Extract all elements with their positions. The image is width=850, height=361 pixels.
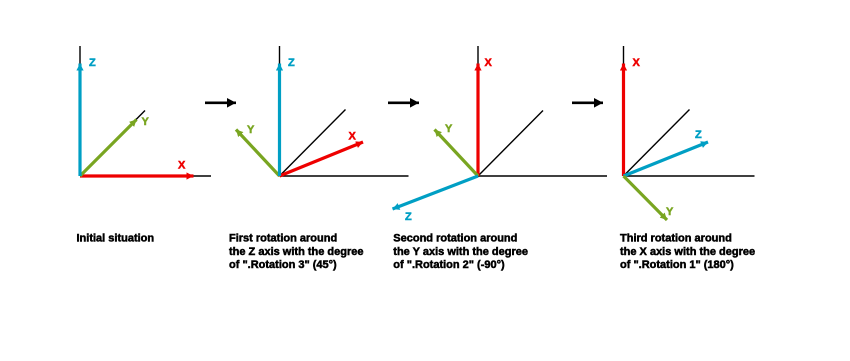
- svg-text:of ".Rotation 1" (180°): of ".Rotation 1" (180°): [620, 259, 734, 271]
- panel3 Y axis (green): [435, 130, 479, 177]
- panel3 Z axis (cyan): [393, 176, 479, 209]
- panel1 reference frame: horizontal black line: [80, 175, 211, 177]
- svg-text:Y: Y: [247, 124, 255, 136]
- panel3 reference frame: vertical black line: [477, 46, 479, 176]
- svg-text:Second rotation around: Second rotation around: [393, 233, 517, 245]
- svg-text:Y: Y: [142, 116, 150, 128]
- panel3 reference frame: diagonal black line: [478, 111, 543, 177]
- panel2 reference frame: diagonal black line: [280, 110, 346, 177]
- panel2 reference frame: vertical black line: [279, 46, 281, 176]
- arrow between panel1 and panel2: [205, 102, 236, 105]
- panel1 Z axis (cyan): [78, 64, 81, 177]
- svg-text:X: X: [349, 131, 357, 143]
- svg-text:the Y axis with the degree: the Y axis with the degree: [393, 246, 528, 258]
- panel2 Z axis (cyan): [278, 64, 281, 177]
- panel1 reference frame: vertical black line: [79, 46, 81, 176]
- svg-text:Z: Z: [89, 57, 96, 69]
- svg-text:X: X: [485, 57, 493, 69]
- svg-text:First rotation around: First rotation around: [229, 233, 337, 245]
- panel4 Z axis (cyan): [624, 142, 709, 176]
- svg-text:the Z axis with the degree: the Z axis with the degree: [229, 246, 363, 258]
- panel2 X axis (red): [280, 142, 364, 176]
- panel2 Y axis (green): [236, 130, 280, 177]
- svg-text:Z: Z: [695, 129, 702, 141]
- panel3 reference frame: horizontal black line: [478, 175, 607, 177]
- svg-text:Third rotation around: Third rotation around: [620, 233, 732, 245]
- panel4 reference frame: horizontal black line: [624, 175, 755, 177]
- arrow between panel3 and panel4: [572, 102, 603, 105]
- panel4 Y axis (green): [624, 176, 668, 220]
- panel3 X axis (red): [476, 64, 479, 177]
- arrow between panel2 and panel3: [388, 102, 419, 105]
- svg-text:of ".Rotation 2" (-90°): of ".Rotation 2" (-90°): [393, 259, 505, 271]
- svg-text:X: X: [178, 160, 186, 172]
- svg-text:the X axis with the degree: the X axis with the degree: [620, 246, 755, 258]
- panel1 reference frame: diagonal black line: [80, 111, 145, 177]
- svg-text:X: X: [633, 57, 641, 69]
- svg-text:Y: Y: [445, 123, 453, 135]
- panel1 Y axis (green): [80, 120, 137, 177]
- panel4 reference frame: vertical black line: [623, 46, 625, 176]
- svg-text:Z: Z: [288, 57, 295, 69]
- panel4 reference frame: diagonal black line: [624, 110, 690, 177]
- panel1 X axis (red): [80, 174, 194, 177]
- svg-text:of ".Rotation 3" (45°): of ".Rotation 3" (45°): [229, 259, 337, 271]
- svg-text:Z: Z: [405, 211, 412, 223]
- svg-text:Initial situation: Initial situation: [77, 233, 155, 245]
- panel2 reference frame: horizontal black line: [280, 175, 409, 177]
- panel4 X axis (red): [622, 64, 625, 177]
- svg-text:Y: Y: [666, 206, 674, 218]
